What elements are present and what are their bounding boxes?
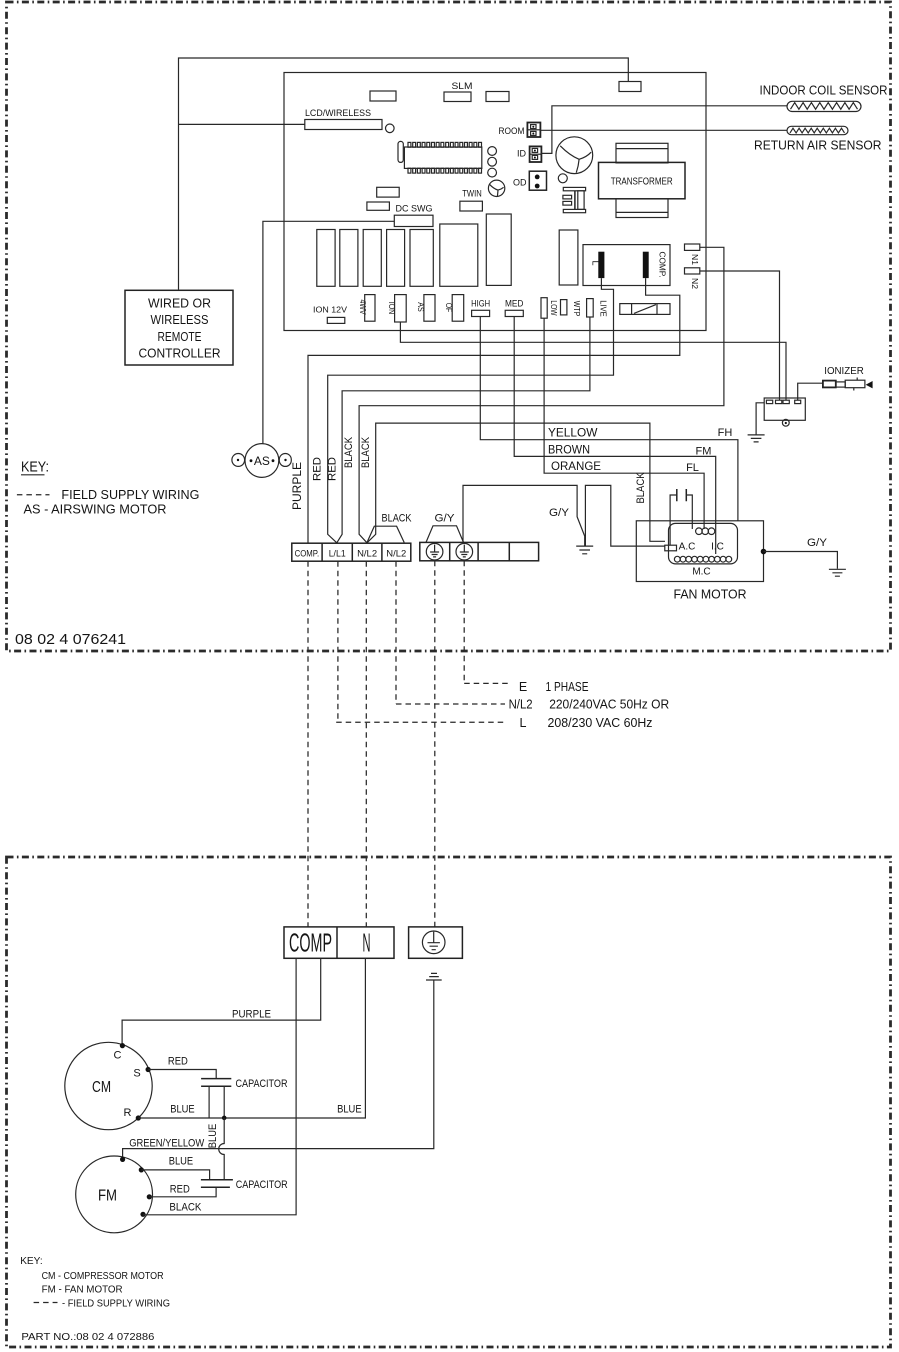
node FM red [147, 1194, 152, 1199]
buzzer [488, 180, 504, 196]
svg-text:FIELD SUPPLY WIRING: FIELD SUPPLY WIRING [61, 487, 199, 502]
svg-text:FM: FM [696, 446, 712, 458]
node FM blue [139, 1167, 144, 1172]
svg-text:FM - FAN MOTOR: FM - FAN MOTOR [42, 1284, 123, 1296]
svg-text:LCD/WIRELESS: LCD/WIRELESS [305, 108, 371, 119]
svg-text:N2: N2 [690, 278, 700, 289]
wire LOW orange to fan FL [544, 318, 704, 529]
svg-text:FM: FM [98, 1188, 117, 1205]
svg-text:L: L [591, 260, 601, 265]
misc header rects [377, 187, 400, 197]
svg-text:SLM: SLM [452, 81, 473, 91]
crystal X1 [398, 141, 403, 162]
svg-text:DC SWG: DC SWG [396, 204, 433, 214]
node L supply [336, 716, 652, 730]
wire earth terminal to ground [463, 485, 585, 546]
ionizer power unit box [764, 398, 805, 426]
svg-text:OD: OD [513, 178, 527, 188]
field wiring N dashed [365, 561, 367, 927]
node R [124, 1107, 141, 1121]
svg-text:RED: RED [170, 1183, 190, 1195]
svg-text:G/Y: G/Y [549, 507, 570, 519]
wire S red to capacitor [148, 1056, 216, 1079]
svg-text:220/240VAC 50Hz OR: 220/240VAC 50Hz OR [549, 698, 669, 712]
svg-text:BLACK: BLACK [360, 436, 372, 468]
key legend outdoor [20, 1255, 170, 1310]
svg-text:HIGH: HIGH [471, 299, 490, 309]
svg-text:I.C: I.C [711, 542, 724, 553]
ground symbol center [576, 546, 593, 554]
svg-text:208/230 VAC 60Hz: 208/230 VAC 60Hz [548, 716, 653, 730]
svg-text:BLUE: BLUE [337, 1104, 362, 1116]
svg-text:AS - AIRSWING MOTOR: AS - AIRSWING MOTOR [24, 502, 167, 517]
terminal N2 [685, 268, 701, 289]
svg-text:ION: ION [387, 302, 397, 315]
return air sensor [754, 126, 882, 152]
wire unit to ionizer electrode [798, 383, 823, 400]
capacitor fan motor [670, 489, 692, 545]
svg-text:CM - COMPRESSOR MOTOR: CM - COMPRESSOR MOTOR [42, 1270, 164, 1282]
svg-text:CAPACITOR: CAPACITOR [236, 1179, 288, 1191]
svg-text:KEY:: KEY: [21, 460, 49, 476]
svg-text:REMOTE: REMOTE [158, 329, 202, 344]
wire N1 black to N/L2 [359, 247, 724, 543]
connector CN-DISP header on board top [619, 82, 641, 92]
junction dot fan earth [761, 549, 767, 555]
node C [114, 1043, 125, 1062]
connector LIVE [587, 299, 609, 317]
wire relay L red to L/L1 [328, 278, 614, 543]
terminal block TB1 COMP/L1/N2 [292, 543, 411, 561]
svg-text:M.C: M.C [692, 567, 710, 578]
wire ION to ionizer unit [400, 322, 786, 400]
terminal block TB2 earth [420, 542, 539, 560]
node FM black [140, 1212, 145, 1217]
wire FM blue to capacitor [141, 1156, 209, 1180]
PCB main control board outline [284, 73, 706, 331]
svg-text:08 02 4 076241: 08 02 4 076241 [15, 632, 126, 648]
border frame of indoor-unit section [7, 2, 891, 651]
wire earth to fan motor G/Y [123, 980, 434, 1158]
svg-text:N/L2: N/L2 [357, 549, 377, 560]
earth terminal symbol 1 [426, 543, 443, 560]
svg-text:L/L1: L/L1 [329, 549, 346, 560]
svg-text:ORANGE: ORANGE [551, 459, 601, 473]
svg-text:CONTROLLER: CONTROLLER [139, 346, 221, 361]
svg-text:RETURN AIR SENSOR: RETURN AIR SENSOR [754, 139, 882, 153]
svg-text:BLACK: BLACK [343, 436, 355, 468]
svg-text:N/L2: N/L2 [509, 698, 533, 712]
svg-text:ID: ID [517, 149, 527, 159]
connector DC SWG [394, 204, 433, 227]
airswing motor AS [232, 444, 291, 478]
svg-text:AS: AS [254, 454, 270, 468]
connector OD [513, 171, 547, 190]
svg-text:- FIELD SUPPLY WIRING: - FIELD SUPPLY WIRING [62, 1298, 170, 1310]
wire ground to fan motor frame [585, 485, 665, 546]
svg-text:COMP: COMP [289, 928, 332, 958]
wire HIGH yellow to fan FH [480, 317, 738, 521]
svg-text:IONIZER: IONIZER [824, 365, 864, 377]
svg-text:BLUE: BLUE [169, 1156, 194, 1168]
connector LCD/WIRELESS [305, 108, 394, 133]
thermal protector [665, 545, 677, 551]
svg-text:RED: RED [327, 457, 339, 481]
transformer core symbol [563, 187, 586, 212]
svg-text:ROOM: ROOM [499, 126, 525, 136]
field wiring earth2 dashed [463, 561, 465, 684]
svg-text:R: R [124, 1107, 132, 1119]
border frame of outdoor section [7, 857, 891, 1347]
compressor motor CM [65, 1042, 152, 1129]
fan motor winding enclosure [669, 523, 738, 564]
connector TWIN [460, 189, 483, 212]
svg-text:TWIN: TWIN [462, 189, 482, 199]
relay RY1 L / COMP contacts [583, 245, 670, 286]
fan motor FM [76, 1156, 153, 1233]
svg-text:TRANSFORMER: TRANSFORMER [611, 177, 673, 188]
connector ROOM sensor [499, 123, 541, 138]
node N/L2 supply [396, 698, 669, 712]
connector 4WV [358, 295, 375, 322]
svg-text:BROWN: BROWN [548, 442, 590, 456]
svg-text:S: S [133, 1068, 140, 1080]
field wiring N/L2 dashed [395, 561, 397, 704]
field wiring COMP dashed [307, 561, 309, 927]
svg-text:4WV: 4WV [358, 300, 368, 315]
ionizer electrode [823, 365, 873, 391]
connector ION 12V [313, 305, 347, 324]
svg-text:L: L [520, 716, 527, 730]
svg-text:N: N [363, 928, 371, 958]
fan motor box [636, 521, 763, 602]
svg-text:E: E [519, 680, 527, 694]
LED indicators [488, 147, 497, 177]
svg-text:RED: RED [312, 457, 324, 481]
svg-text:FL: FL [686, 462, 699, 474]
svg-text:PURPLE: PURPLE [290, 462, 304, 510]
IC U1 microcontroller [404, 142, 481, 173]
wire ROOM to return air sensor [541, 129, 788, 131]
field wiring earth1 dashed [434, 561, 436, 927]
svg-text:RED: RED [168, 1056, 188, 1068]
indoor coil sensor [760, 84, 888, 112]
wire R blue to N [138, 958, 365, 1118]
svg-text:COMP.: COMP. [295, 549, 320, 560]
wire ID to indoor coil sensor [541, 106, 787, 154]
wire N2 to ionizer unit [700, 271, 780, 400]
connector LOW [541, 298, 559, 319]
svg-text:CAPACITOR: CAPACITOR [236, 1078, 288, 1090]
capacitor compressor [201, 1078, 287, 1118]
svg-text:N/L2: N/L2 [386, 549, 406, 560]
svg-text:GREEN/YELLOW: GREEN/YELLOW [129, 1137, 205, 1149]
transformer T1 [599, 143, 686, 217]
svg-text:YELLOW: YELLOW [548, 426, 598, 440]
key legend [17, 460, 200, 517]
terminal block COMP N [284, 927, 394, 958]
terminal block earth [409, 927, 463, 958]
capacitor fan [201, 1179, 288, 1191]
wire DC SWG to airswing motor [263, 221, 394, 443]
svg-text:FAN MOTOR: FAN MOTOR [674, 588, 747, 602]
svg-text:PART NO.:08 02 4 072886: PART NO.:08 02 4 072886 [21, 1331, 154, 1343]
wire relay COMP purple to COMP. terminal [308, 278, 680, 543]
svg-text:LOW: LOW [549, 300, 559, 315]
junction blue [222, 1116, 227, 1121]
wire remote controller to board header [179, 58, 629, 290]
wire LIVE red to L/L1 [337, 317, 590, 543]
svg-text:LIVE: LIVE [598, 300, 608, 317]
wire fan motor black to N/L2 [367, 423, 665, 543]
connector WTP [561, 300, 583, 317]
connector AS [416, 295, 435, 322]
connector OF [444, 295, 464, 322]
svg-text:BLUE: BLUE [207, 1124, 219, 1149]
svg-text:WIRELESS: WIRELESS [151, 312, 209, 327]
wire ionizer unit to ground [756, 403, 764, 435]
svg-text:G/Y: G/Y [435, 513, 456, 525]
wire controller branch to LCD connector [179, 123, 305, 125]
wire blue jumper with hop [207, 1118, 224, 1180]
connector ION [387, 295, 406, 322]
remote controller box [125, 290, 233, 365]
jumper G/Y earth terminals [426, 513, 464, 543]
wire fan frame to ground G/Y [764, 537, 846, 576]
svg-text:BLACK: BLACK [382, 513, 413, 525]
svg-text:C: C [114, 1050, 122, 1062]
svg-text:FH: FH [718, 427, 733, 439]
earth terminal symbol 2 [456, 543, 473, 560]
main coil M.C [674, 556, 731, 562]
svg-text:WIRED OR: WIRED OR [148, 296, 211, 311]
terminal N1 [685, 244, 701, 265]
svg-text:N1: N1 [690, 254, 700, 265]
connector ID sensor [517, 146, 541, 162]
wire COMP to compressor C purple [122, 958, 321, 1043]
connector SLM headers [370, 81, 509, 102]
jumper BLACK N/L2 to N/L2 [367, 513, 412, 543]
small circle part [558, 174, 567, 183]
relay bank rectangles [317, 214, 578, 286]
svg-text:1 PHASE: 1 PHASE [546, 680, 589, 694]
svg-text:G/Y: G/Y [807, 537, 828, 549]
connector MED [505, 299, 524, 317]
fan symbol on board [556, 137, 593, 174]
svg-text:COMP.: COMP. [658, 252, 668, 278]
svg-text:BLUE: BLUE [170, 1104, 195, 1116]
earth symbol inverted [426, 973, 442, 980]
svg-text:MED: MED [505, 299, 524, 309]
svg-text:BLACK: BLACK [169, 1201, 202, 1213]
svg-text:BLACK: BLACK [635, 472, 647, 504]
wire FM black to COMP [143, 958, 296, 1215]
svg-text:ION 12V: ION 12V [313, 305, 347, 315]
node S [133, 1067, 150, 1080]
node FM earth [120, 1157, 125, 1162]
relay RY2 with slash [620, 304, 670, 315]
wire FM red to capacitor [149, 1183, 216, 1197]
svg-text:KEY:: KEY: [20, 1255, 43, 1267]
svg-text:PURPLE: PURPLE [232, 1009, 271, 1021]
svg-text:CM: CM [92, 1079, 111, 1096]
node E supply [464, 680, 588, 694]
ground symbol ionizer [748, 435, 765, 442]
svg-text:A.C: A.C [679, 542, 696, 553]
auxiliary coil [696, 528, 715, 535]
connector HIGH [471, 299, 490, 317]
svg-text:WTP: WTP [572, 301, 582, 317]
wire MED brown to fan FM [514, 317, 716, 555]
svg-text:INDOOR COIL SENSOR: INDOOR COIL SENSOR [760, 84, 888, 98]
field wiring L dashed [337, 561, 339, 722]
